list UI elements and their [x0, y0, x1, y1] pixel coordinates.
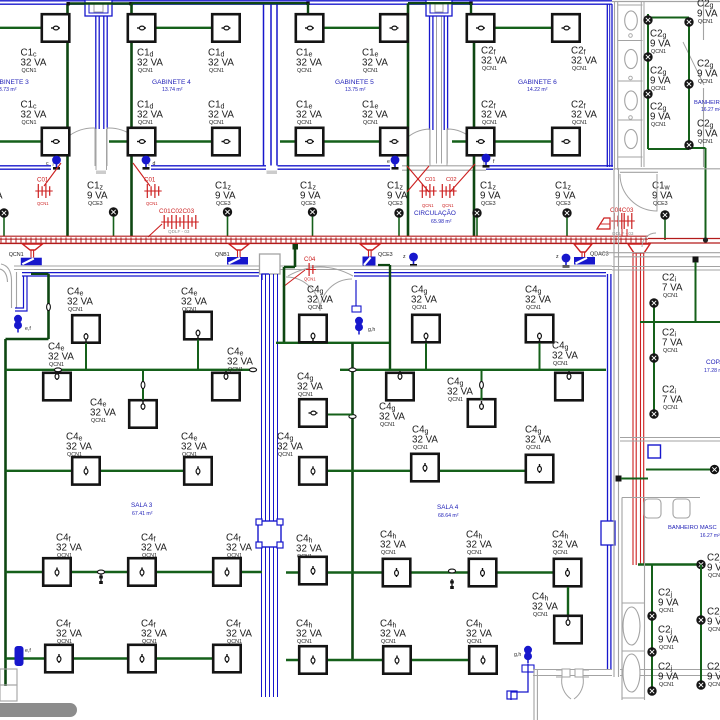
svg-text:32 VA: 32 VA — [296, 57, 322, 68]
svg-text:32 VA: 32 VA — [48, 351, 74, 362]
svg-text:32 VA: 32 VA — [226, 542, 252, 553]
svg-text:32 VA: 32 VA — [296, 109, 322, 120]
svg-text:9 VA: 9 VA — [87, 190, 108, 201]
wire SALA4 W3 — [313, 470, 541, 472]
door jambs alcove — [437, 16, 442, 164]
svg-text:QCN1: QCN1 — [467, 550, 482, 556]
wire SALA4 W4 — [286, 571, 568, 573]
svg-text:32 VA: 32 VA — [141, 542, 167, 553]
svg-text:32 VA: 32 VA — [227, 356, 253, 367]
svg-text:QCN1: QCN1 — [708, 627, 720, 633]
svg-text:g,h: g,h — [514, 652, 521, 658]
wire feed QCE3 trunk — [378, 265, 390, 370]
door GAB5b — [394, 129, 430, 166]
tray flare QDAC3 — [574, 244, 592, 252]
wall COPA top — [612, 267, 720, 271]
label C4f r4a — [56, 533, 82, 560]
svg-text:9 VA: 9 VA — [707, 616, 720, 627]
room label CIRCULACAO — [414, 208, 456, 225]
wire bath bottom link — [648, 148, 689, 150]
svg-text:QCN1: QCN1 — [298, 392, 313, 398]
svg-text:9 VA: 9 VA — [697, 8, 718, 19]
lamp C2j a1 — [647, 611, 656, 620]
junction tray right — [703, 237, 708, 242]
outlet C4h r4b — [469, 559, 497, 587]
wall corridor-salas gray core — [14, 266, 612, 270]
wall gabinete bottom seg2 — [151, 166, 266, 169]
lamp C2i 2 — [649, 353, 658, 362]
label C2i 1 — [662, 273, 683, 300]
svg-text:QCN1: QCN1 — [467, 639, 482, 645]
label C4e r3a — [66, 432, 92, 459]
svg-text:17.28 m²: 17.28 m² — [704, 368, 720, 374]
svg-text:QCE3: QCE3 — [388, 201, 403, 207]
svg-text:QCN1: QCN1 — [22, 68, 37, 74]
svg-text:32 VA: 32 VA — [137, 57, 163, 68]
svg-text:z: z — [556, 254, 559, 260]
outlet C4g c1b — [299, 399, 327, 427]
svg-text:32 VA: 32 VA — [466, 628, 492, 639]
lamp z1 blue — [403, 253, 418, 267]
svg-text:QCE3: QCE3 — [301, 201, 316, 207]
label C2j b2 — [707, 662, 720, 689]
svg-text:QCN1: QCN1 — [278, 452, 293, 458]
svg-text:32 VA: 32 VA — [552, 350, 578, 361]
label C1z 6 — [555, 181, 576, 208]
svg-text:QCN1: QCN1 — [380, 422, 395, 428]
wall SALA4 right — [608, 274, 611, 670]
label C4f r5c — [226, 619, 252, 646]
wire GAB5 row2 — [280, 140, 408, 142]
wire trunk GAB4 — [130, 4, 133, 237]
svg-text:QCN1: QCN1 — [304, 277, 316, 282]
conduit leader C02c — [450, 164, 475, 192]
svg-text:QCN1: QCN1 — [422, 203, 434, 208]
outlet C4e r2a — [43, 371, 70, 400]
outlet C4g r3a — [411, 454, 439, 482]
svg-text:QCN1: QCN1 — [412, 305, 427, 311]
wall GAB5-GAB6 alcove left — [430, 16, 433, 164]
label C2f 32VA — [571, 46, 597, 73]
toilet 2 — [625, 49, 638, 68]
svg-text:9 VA: 9 VA — [652, 190, 673, 201]
lamp C2j top — [710, 465, 719, 474]
feeder QCE3 — [369, 250, 372, 257]
outlet C1e — [296, 14, 324, 42]
wall stall 5 — [618, 156, 643, 158]
receptacle ef blue — [14, 315, 31, 333]
wire masc top — [646, 469, 718, 471]
cable tray — [0, 236, 720, 243]
svg-text:QCN1: QCN1 — [227, 639, 242, 645]
label C1w — [652, 181, 673, 208]
label C2i 2 — [662, 328, 683, 355]
drain 3 — [629, 116, 633, 120]
door marks bottom — [556, 669, 589, 677]
svg-text:32 VA: 32 VA — [362, 57, 388, 68]
svg-text:9 VA: 9 VA — [555, 190, 576, 201]
circuit C04 — [283, 256, 316, 287]
svg-text:d: d — [153, 161, 156, 167]
label C1z 2 — [215, 181, 236, 208]
label C4e r2a — [48, 342, 74, 369]
label C4g c1a — [307, 285, 333, 312]
svg-text:QCN1: QCN1 — [381, 639, 396, 645]
outlet C4h r5a — [299, 646, 327, 674]
svg-text:QCN1: QCN1 — [698, 19, 713, 25]
lamp C2g a3 — [643, 89, 652, 98]
svg-text:QCN1: QCN1 — [442, 203, 454, 208]
svg-text:QCE3: QCE3 — [556, 201, 571, 207]
svg-text:BANHEIRO MASC: BANHEIRO MASC — [668, 525, 717, 531]
outlet C2f — [467, 14, 495, 42]
label C4e r3b — [181, 432, 207, 459]
lamp C2i 3 — [649, 409, 658, 418]
outlet C2f — [467, 128, 495, 156]
wire feed SALA4 left — [284, 244, 298, 343]
feeder QNB1 — [238, 250, 241, 257]
label C4f r4c — [226, 533, 252, 560]
svg-text:QCN1: QCN1 — [146, 201, 158, 206]
door C1w — [620, 174, 657, 211]
stub C4e r1a — [85, 343, 87, 370]
label C4e r2b — [90, 398, 116, 425]
label C2i 3 — [662, 385, 683, 412]
svg-text:C01: C01 — [425, 177, 436, 183]
svg-text:7 VA: 7 VA — [662, 394, 683, 405]
wall GAB4-GAB5 divider — [264, 4, 278, 166]
switch lamp e — [387, 156, 399, 170]
svg-text:QCN1: QCN1 — [297, 120, 312, 126]
tray flare QCN1 — [23, 244, 43, 250]
room label BANHEIRO MASC — [668, 525, 720, 539]
svg-text:32 VA: 32 VA — [380, 628, 406, 639]
svg-text:QDLF - 03: QDLF - 03 — [612, 231, 634, 236]
wall corridor right bottom — [600, 253, 720, 257]
panel QDAC3 — [574, 252, 609, 265]
label C4f r4b — [141, 533, 167, 560]
wall stall 2 — [618, 40, 643, 42]
svg-text:32 VA: 32 VA — [137, 109, 163, 120]
door arcs bottom — [562, 677, 584, 699]
equipment blue square — [648, 445, 661, 458]
svg-text:QCN1: QCN1 — [708, 573, 720, 579]
svg-text:GABINETE 6: GABINETE 6 — [518, 79, 557, 86]
toilet 4 — [625, 129, 638, 148]
wire top link GAB5-GAB6 — [408, 2, 473, 5]
svg-text:QCE3: QCE3 — [653, 201, 668, 207]
svg-text:QCN1: QCN1 — [413, 445, 428, 451]
svg-text:QCN1: QCN1 — [37, 201, 49, 206]
svg-text:QNB1: QNB1 — [215, 252, 230, 258]
svg-text:32 VA: 32 VA — [90, 407, 116, 418]
outlet C1d — [128, 14, 156, 42]
svg-text:32 VA: 32 VA — [525, 294, 551, 305]
wire top link GAB3-GAB4 — [67, 2, 133, 5]
wire bath col A — [647, 14, 649, 149]
svg-text:9 VA: 9 VA — [387, 190, 408, 201]
svg-text:QCN1: QCN1 — [651, 49, 666, 55]
svg-text:QCE3: QCE3 — [216, 201, 231, 207]
wire trunk GAB3 — [66, 4, 69, 237]
svg-text:32 VA: 32 VA — [21, 57, 47, 68]
wall top bathroom edge — [612, 1, 720, 3]
svg-text:QCN1: QCN1 — [572, 66, 587, 72]
wire C2i lamps vert — [653, 303, 655, 414]
svg-text:QCN1: QCN1 — [663, 405, 678, 411]
wall GAB5-GAB6 alcove right — [444, 16, 447, 164]
svg-text:GABINETE 3: GABINETE 3 — [0, 79, 29, 86]
room label GABINETE 4 — [152, 79, 191, 93]
svg-text:32 VA: 32 VA — [208, 109, 234, 120]
svg-text:QCE3: QCE3 — [481, 201, 496, 207]
svg-text:32 VA: 32 VA — [208, 57, 234, 68]
wire GAB3 row2 — [0, 140, 68, 142]
receptacle gh blue — [355, 317, 375, 335]
stub C4g r1b — [539, 343, 541, 370]
circuit C02 — [439, 177, 456, 208]
label C4h r5a — [296, 619, 322, 646]
stub C4g r2b — [480, 370, 484, 400]
svg-text:32 VA: 32 VA — [552, 539, 578, 550]
wall masc left — [621, 498, 623, 701]
lamp C1z 5 — [472, 208, 481, 236]
label C4h hang — [532, 592, 558, 619]
wall bottom gray — [533, 670, 720, 676]
outlet C4g r1b — [526, 315, 554, 343]
wall SALA4 top blue — [354, 273, 606, 276]
svg-text:QDLF - 03: QDLF - 03 — [168, 229, 190, 234]
door corridor right — [642, 233, 656, 247]
svg-text:QCN1: QCN1 — [659, 645, 674, 651]
lamp C2j a2 — [647, 647, 656, 656]
red riser stub combs — [622, 229, 627, 236]
svg-text:9 VA: 9 VA — [300, 190, 321, 201]
svg-text:QCN1: QCN1 — [297, 554, 312, 560]
svg-text:13.74 m²: 13.74 m² — [162, 87, 183, 93]
svg-text:g,h: g,h — [368, 327, 375, 333]
svg-text:32 VA: 32 VA — [277, 441, 303, 452]
door bathroom diag — [683, 42, 704, 85]
wall gabinete bottom seg4 — [486, 166, 613, 169]
wire SALA3 jog — [6, 338, 49, 340]
svg-text:SALA 4: SALA 4 — [437, 504, 459, 511]
svg-text:32 VA: 32 VA — [525, 434, 551, 445]
wire bath elbow — [689, 148, 706, 240]
svg-text:QCN1: QCN1 — [659, 608, 674, 614]
circuit C01 left — [35, 177, 52, 207]
svg-text:32 VA: 32 VA — [481, 55, 507, 66]
lamp C1z 4 — [394, 208, 403, 236]
svg-text:QCN1: QCN1 — [363, 68, 378, 74]
svg-text:C02: C02 — [446, 177, 457, 183]
lamp C2j b2 — [696, 680, 705, 689]
lamp C2j b1 — [696, 615, 705, 624]
svg-text:16.27 m²: 16.27 m² — [701, 107, 720, 113]
stub C4g r1a — [425, 343, 427, 370]
outlet C4f r4c — [213, 558, 241, 586]
door SALA4 entry — [286, 267, 353, 311]
outlet C4g r2b — [468, 399, 496, 427]
tray flare risers — [628, 244, 650, 253]
switch lamp f — [482, 154, 495, 168]
wire SALA4 W1 — [276, 342, 390, 344]
svg-text:32 VA: 32 VA — [532, 601, 558, 612]
conduit leader C01a — [44, 163, 61, 186]
outlet C1d — [212, 14, 240, 42]
label C4h r4c — [552, 530, 578, 557]
sink 2 — [673, 499, 690, 518]
label C2j a2 — [658, 625, 679, 652]
svg-text:GABINETE 4: GABINETE 4 — [152, 79, 191, 86]
wire trunk GAB5 — [407, 3, 410, 236]
label C4e r1b — [181, 287, 207, 314]
label C4e r1a — [67, 287, 93, 314]
lamp C2j a3 — [647, 686, 656, 695]
svg-text:C01C02C03: C01C02C03 — [159, 208, 195, 215]
svg-text:QCN1: QCN1 — [209, 68, 224, 74]
outlet C4h r5c — [469, 646, 497, 674]
outlet C4g r2c — [555, 371, 583, 400]
svg-text:QCN1: QCN1 — [308, 305, 323, 311]
room label BANHEIRO FEM — [694, 100, 720, 113]
label C1e 32VA — [296, 48, 322, 75]
room label COPA — [704, 359, 720, 374]
wire SALA3 R3 — [6, 469, 208, 473]
panel QCN1 — [9, 252, 42, 265]
svg-text:QCN1: QCN1 — [138, 120, 153, 126]
svg-text:QCN1: QCN1 — [533, 612, 548, 618]
wall bottom left vert — [534, 670, 537, 720]
wall gray under alcove — [402, 166, 486, 170]
svg-text:QCN1: QCN1 — [67, 452, 82, 458]
svg-text:QCN1: QCN1 — [526, 445, 541, 451]
svg-text:QCN1: QCN1 — [297, 68, 312, 74]
svg-text:GABINETE 5: GABINETE 5 — [335, 79, 374, 86]
wall gabinete bottom seg1 — [0, 166, 51, 169]
receptacle gh2 blue — [514, 646, 532, 664]
lamp C2j mid — [696, 560, 705, 569]
svg-text:QCN1: QCN1 — [698, 139, 713, 145]
door top alcove — [426, 0, 452, 16]
svg-text:32 VA: 32 VA — [66, 441, 92, 452]
svg-text:32 VA: 32 VA — [141, 628, 167, 639]
red box QDLF right — [597, 218, 610, 229]
svg-text:32 VA: 32 VA — [297, 381, 323, 392]
stub C4g c1b — [328, 414, 353, 416]
outlet C4g r3b — [526, 455, 554, 483]
wire C2i horiz — [640, 321, 720, 323]
svg-text:QCN1: QCN1 — [363, 120, 378, 126]
label C2f 32VA — [571, 100, 597, 127]
label C2j mid — [707, 553, 720, 580]
svg-text:COPA: COPA — [706, 359, 720, 366]
wall SALA3 top blue — [22, 273, 259, 276]
shelf bottom left — [0, 669, 17, 701]
svg-text:QCN1: QCN1 — [651, 86, 666, 92]
svg-text:13.75 m²: 13.75 m² — [345, 87, 366, 93]
outlet C1e — [380, 14, 408, 42]
wire trunk SALA4 mid — [349, 343, 356, 661]
column channel top — [260, 254, 281, 274]
svg-text:32 VA: 32 VA — [296, 628, 322, 639]
outlet C4h r4a — [383, 559, 411, 587]
feeder QCN1 — [31, 250, 34, 258]
label C1z 3 — [300, 181, 321, 208]
wire SALA3 R4 — [6, 571, 263, 573]
outlet C4h hang — [554, 616, 582, 644]
circuit C01C02C03 QDLF — [148, 208, 199, 237]
wire bath top — [648, 17, 689, 19]
wall stall front — [641, 2, 644, 167]
label C4g r3a — [412, 425, 438, 452]
node C2 masc — [616, 476, 649, 482]
switch lamp d — [142, 156, 156, 170]
label C1d 32VA — [208, 100, 234, 127]
junction bead W4 — [448, 569, 455, 589]
door GAB3 — [53, 128, 95, 166]
lamp C2g a2 — [643, 52, 652, 61]
circuit C04C03 QDLF — [610, 207, 635, 236]
lamp C1z 1 — [109, 207, 118, 236]
switch lamp c — [46, 156, 61, 170]
conduit leader C01b — [133, 163, 150, 186]
svg-text:QCN1: QCN1 — [49, 362, 64, 368]
lamp C1z edge — [0, 208, 9, 236]
receptacle ef2 blue — [15, 646, 32, 666]
outlet C4g r2a — [386, 371, 414, 400]
lamp C1z 6 — [562, 208, 571, 236]
label C4g r1a — [411, 285, 437, 312]
svg-text:7 VA: 7 VA — [662, 337, 683, 348]
label C4g r2b — [447, 377, 473, 404]
svg-text:QCN1: QCN1 — [68, 307, 83, 313]
lamp C1z 3 — [308, 207, 317, 236]
lamp C2i 1 — [649, 298, 658, 307]
label C2j b1 — [707, 607, 720, 634]
wire feed SALA3 — [31, 274, 49, 339]
svg-text:32 VA: 32 VA — [379, 411, 405, 422]
wire GAB5 row1 — [308, 27, 408, 29]
svg-text:QCN1: QCN1 — [708, 682, 720, 688]
toilet 1 — [625, 11, 638, 30]
label C2f 32VA — [481, 100, 507, 127]
svg-text:9 VA: 9 VA — [697, 128, 718, 139]
stub C4e r1b — [197, 340, 199, 370]
corner blue SALA4 — [262, 274, 269, 280]
wall GAB3-GAB4 divider — [96, 4, 107, 170]
svg-text:QCN1: QCN1 — [57, 639, 72, 645]
label C2g b0 — [697, 0, 718, 25]
svg-text:QCN1: QCN1 — [651, 122, 666, 128]
label C1e 32VA — [296, 100, 322, 127]
svg-text:32 VA: 32 VA — [181, 296, 207, 307]
room label SALA 4 — [437, 504, 459, 519]
wire GAB6 row1 — [474, 27, 566, 29]
wire top link GAB4-GAB5 — [132, 2, 310, 5]
svg-text:CIRCULAÇÃO: CIRCULAÇÃO — [414, 208, 456, 217]
svg-text:65.98 m²: 65.98 m² — [431, 219, 452, 225]
svg-text:QCN1: QCN1 — [482, 66, 497, 72]
svg-text:32 VA: 32 VA — [181, 441, 207, 452]
svg-text:32 VA: 32 VA — [56, 542, 82, 553]
label C1z 5 — [480, 181, 501, 208]
wall stall 3 — [618, 80, 643, 82]
label C4g r3b — [525, 425, 551, 452]
label C4g r2a — [379, 402, 405, 429]
circuit C01 third — [419, 177, 436, 208]
outlet C4e r1b — [184, 312, 212, 340]
